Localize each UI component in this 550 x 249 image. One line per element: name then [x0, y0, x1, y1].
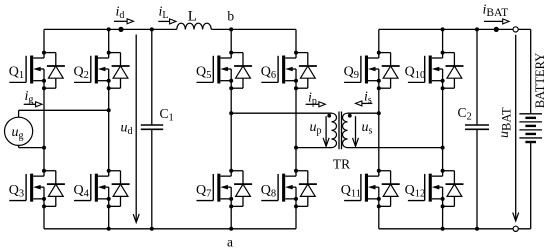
label Q4	[74, 183, 90, 200]
voltage arrow u_d	[133, 35, 139, 223]
label TR	[333, 157, 350, 172]
voltage arrow u_p	[323, 116, 329, 146]
wire leg Q9/Q11	[378, 29, 380, 228]
label i_p	[308, 91, 317, 108]
wire u_g bottom lead	[19, 145, 44, 147]
label Q9	[344, 65, 359, 82]
junction dots Q9	[377, 51, 381, 91]
label Q3	[9, 183, 24, 200]
svg-text:L: L	[188, 8, 197, 24]
label i_d	[116, 5, 125, 22]
wire top rail right segment	[379, 28, 531, 30]
wire u_g top lead	[19, 110, 109, 117]
inductor L	[177, 23, 211, 29]
transistor Q12	[408, 174, 443, 202]
label Q5	[196, 65, 211, 82]
battery	[519, 29, 542, 228]
transistor Q2	[74, 56, 109, 84]
svg-text:uBAT: uBAT	[497, 107, 514, 138]
transformer secondary winding	[343, 113, 348, 147]
junction dot leg2 bottom rail	[107, 227, 111, 231]
label u_p	[310, 120, 322, 137]
label L	[188, 8, 197, 24]
transistor Q9	[344, 56, 379, 84]
body diode of Q11	[379, 171, 400, 207]
current arrow i_d	[114, 19, 134, 24]
node u_g to leg1 junction	[42, 146, 46, 150]
current measuring dot i_d	[118, 27, 123, 32]
capacitor C1	[141, 29, 163, 228]
source u_g circle	[5, 117, 33, 145]
junction dots Q10	[441, 51, 445, 91]
terminal circle bottom	[513, 226, 518, 231]
body diode of Q1	[44, 53, 65, 89]
body diode of Q5	[231, 53, 252, 89]
transistor Q5	[197, 56, 232, 84]
label C1	[160, 106, 174, 124]
body diode of Q2	[109, 53, 130, 89]
voltage arrow u_BAT	[513, 35, 519, 221]
transistor Q1	[9, 56, 44, 84]
current arrow i_g	[24, 102, 42, 107]
body diode of Q9	[379, 53, 400, 89]
wire leg Q2/Q4	[108, 29, 110, 228]
junction dot primary bottom at leg B	[294, 146, 298, 150]
junction dots Q11	[377, 169, 381, 209]
current arrow i_BAT	[484, 19, 509, 24]
node u_g to leg2 junction	[107, 108, 111, 112]
junction dot primary top at leg A	[229, 111, 233, 115]
body diode of Q10	[443, 53, 464, 89]
voltage arrow u_s	[353, 116, 359, 146]
wire secondary bottom lead	[348, 147, 443, 149]
body diode of Q12	[443, 171, 464, 207]
transformer core	[339, 112, 342, 150]
wire leg Q5/Q7	[230, 29, 232, 228]
junction dot C2 bottom	[475, 227, 479, 231]
junction dots Q3	[42, 169, 46, 209]
svg-text:a: a	[227, 235, 233, 249]
label u_d	[121, 121, 133, 138]
junction dots Q6	[294, 51, 298, 91]
body diode of Q4	[109, 171, 130, 207]
body diode of Q8	[296, 171, 317, 207]
wire primary bottom lead	[296, 147, 332, 149]
capacitor C2	[465, 29, 489, 228]
wire leg Q1/Q3	[43, 29, 45, 228]
polarity dot primary	[327, 114, 331, 118]
label i_g	[25, 89, 34, 106]
node a	[227, 227, 233, 249]
wire bottom rail left segment	[44, 228, 296, 230]
transistor Q6	[261, 56, 296, 84]
transistor Q4	[74, 174, 109, 202]
label Q7	[196, 183, 211, 200]
junction dots Q2	[107, 51, 111, 91]
label u_BAT	[497, 107, 514, 138]
label Q11	[341, 183, 361, 200]
wire leg Q10/Q12	[442, 29, 444, 228]
label Q10	[405, 65, 426, 82]
junction dot leg2 top rail	[107, 27, 111, 31]
junction dots Q4	[107, 169, 111, 209]
label i_s	[364, 90, 372, 107]
label i_L	[159, 5, 169, 22]
junction dot C1 top	[150, 27, 154, 31]
svg-text:b: b	[227, 8, 234, 23]
body diode of Q3	[44, 171, 65, 207]
junction dots Q12	[441, 169, 445, 209]
junction dots Q1	[42, 51, 46, 91]
transistor Q10	[408, 56, 443, 84]
transistor Q7	[197, 174, 232, 202]
label Q2	[74, 65, 89, 82]
transformer primary winding	[332, 113, 337, 147]
junction dot C2 top	[475, 27, 479, 31]
junction dots Q8	[294, 169, 298, 209]
label Q12	[405, 183, 426, 200]
label u_s	[362, 120, 373, 137]
body diode of Q7	[231, 171, 252, 207]
label Q8	[261, 183, 276, 200]
terminal circle top	[513, 27, 518, 32]
label u_g	[12, 125, 24, 142]
junction dots Q7	[229, 169, 233, 209]
transistor Q11	[344, 174, 379, 202]
label C2	[458, 105, 472, 123]
wire leg Q6/Q8	[295, 29, 297, 228]
current arrow i_L	[158, 19, 176, 24]
wire secondary top lead	[348, 112, 379, 114]
node b	[227, 8, 234, 31]
junction dot C1 bottom	[150, 227, 154, 231]
current arrow i_s	[356, 101, 373, 106]
polarity dot secondary	[348, 114, 352, 118]
current measuring dot i_BAT	[494, 27, 499, 32]
transistor Q3	[9, 174, 44, 202]
junction dot secondary top at leg C	[377, 111, 381, 115]
junction dot leg D top rail	[441, 27, 445, 31]
junction dots Q5	[229, 51, 233, 91]
label Q1	[9, 65, 24, 82]
junction dot leg D bottom rail	[441, 227, 445, 231]
wire primary top lead	[231, 112, 331, 114]
svg-text:TR: TR	[333, 157, 350, 172]
label i_BAT	[483, 3, 509, 20]
transistor Q8	[261, 174, 296, 202]
body diode of Q6	[296, 53, 317, 89]
svg-text:BATTERY: BATTERY	[533, 53, 547, 109]
wire top rail left segment	[44, 28, 296, 30]
junction dot secondary bottom at leg D	[441, 146, 445, 150]
label BATTERY	[533, 53, 547, 109]
current arrow i_p	[306, 102, 326, 107]
label Q6	[261, 65, 276, 82]
wire bottom rail right segment	[379, 228, 531, 230]
